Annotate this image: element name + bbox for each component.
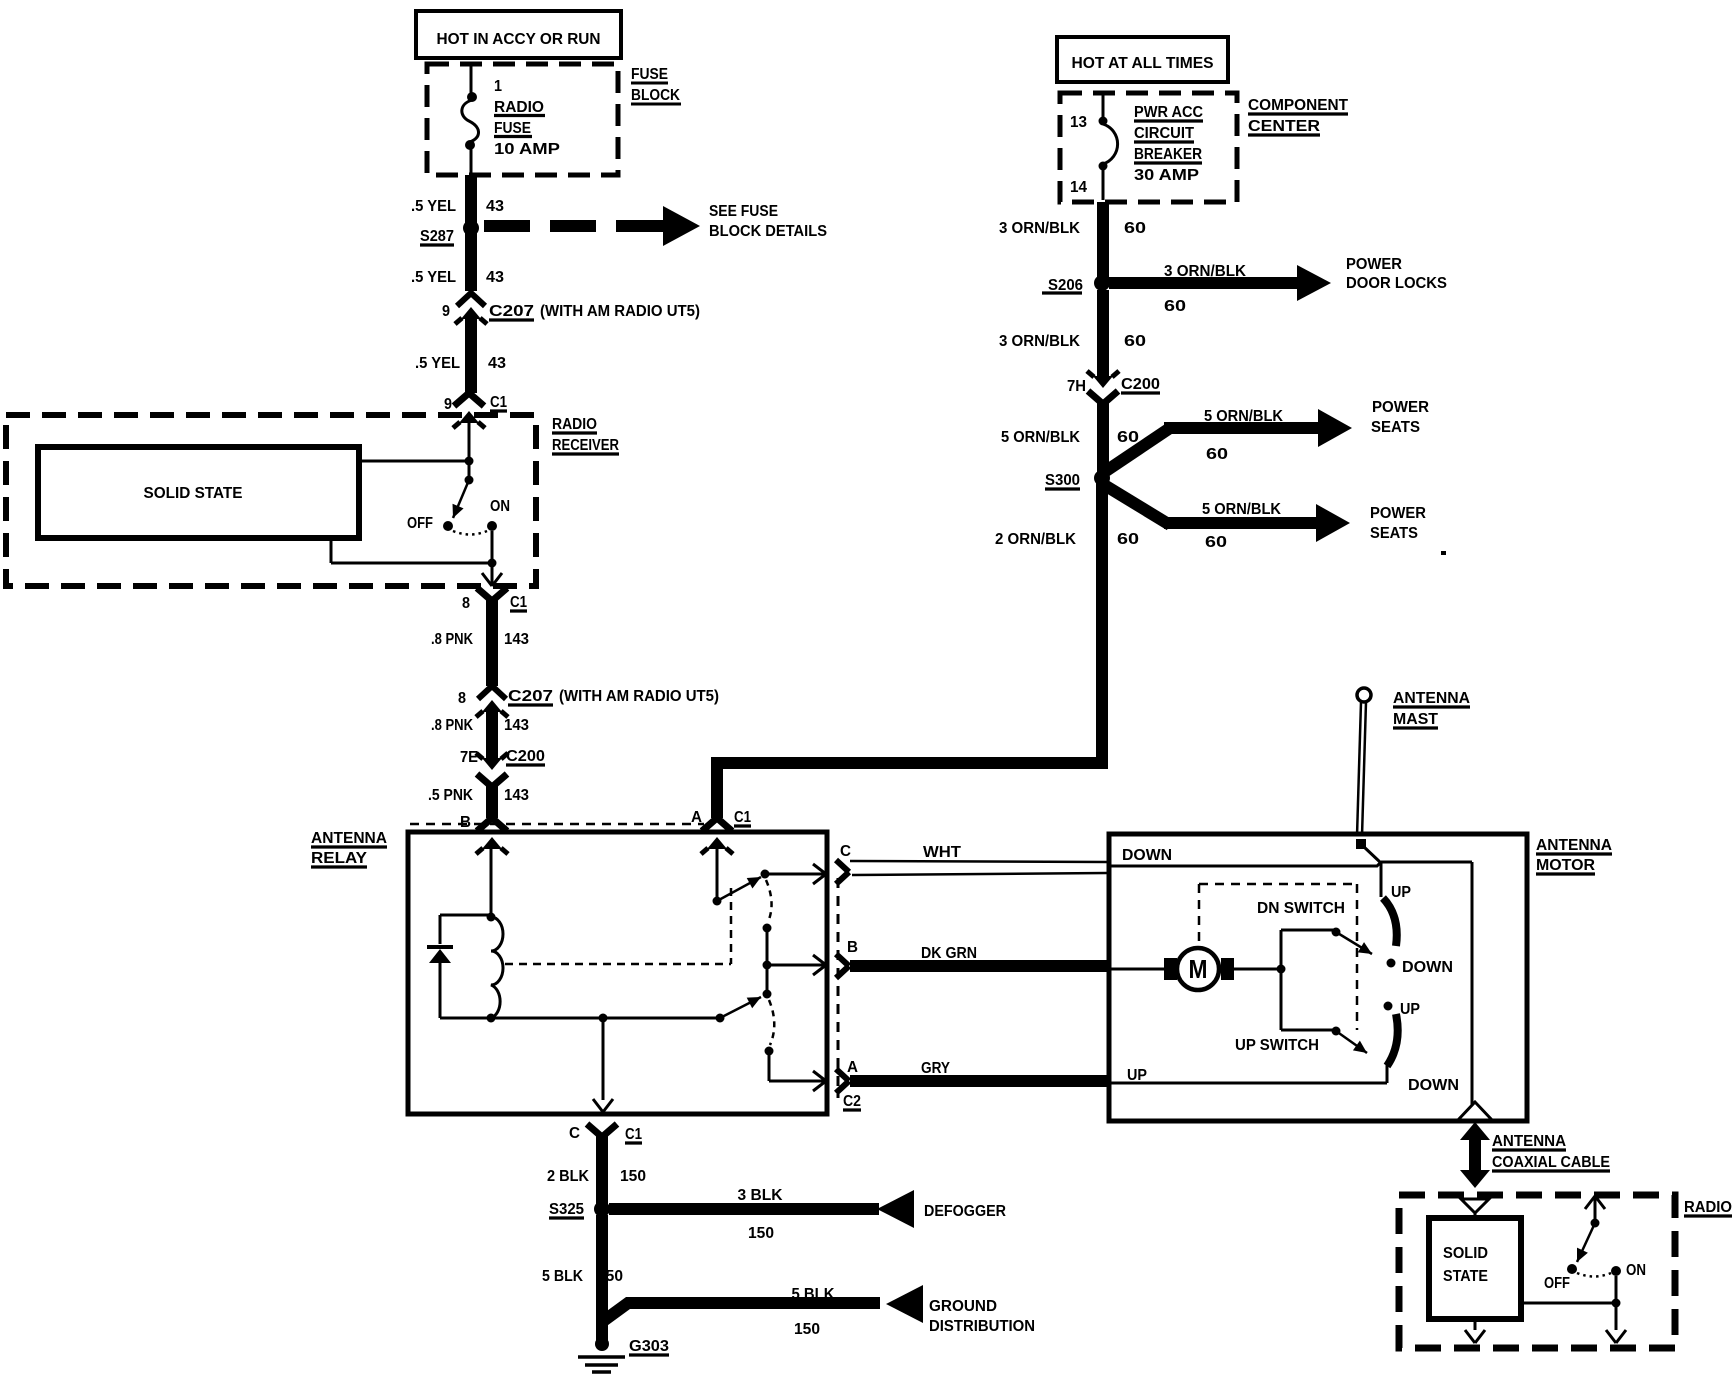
wire: solid state bottom exit [1465, 1319, 1485, 1343]
pin 9 at C1 [444, 396, 452, 413]
wire: receiver to C207 (.8 PNK 143) [486, 599, 498, 686]
DN switch dashed linkage box [1199, 884, 1357, 1030]
solid state module box (radio) [1429, 1213, 1521, 1319]
solid state module box (receiver) [38, 447, 359, 538]
contact: DN switch DOWN [1387, 959, 1396, 968]
label ON (receiver) [490, 498, 510, 515]
svg-text:S300: S300 [1045, 472, 1080, 489]
label C207 (WITH AM RADIO UT5) [489, 303, 700, 320]
label OFF (radio) [1544, 1275, 1570, 1292]
wire: mast to node [1363, 846, 1381, 863]
wire label 5 ORN/BLK 60 (lower branch) [1202, 501, 1281, 551]
connector C1 pin A into relay [701, 818, 733, 854]
contact: column mid [763, 961, 772, 970]
connector C2 dashed line [837, 878, 840, 1098]
mast terminal square [1356, 839, 1366, 849]
wire label 3 ORN/BLK 60 (branch) [1164, 263, 1246, 315]
svg-text:HOT IN ACCY OR RUN: HOT IN ACCY OR RUN [437, 31, 601, 48]
label C2 [843, 1093, 861, 1110]
wire: C200 to S300 (5 ORN/BLK 60) [1097, 402, 1109, 478]
svg-text:COMPONENT: COMPONENT [1248, 97, 1348, 114]
wire label .8 PNK 143 [431, 631, 529, 648]
pin B at relay C1 [460, 814, 471, 831]
svg-text:143: 143 [504, 787, 529, 804]
splice S300 [1094, 470, 1110, 486]
ground G303 [578, 1337, 625, 1372]
svg-text:ANTENNA: ANTENNA [1492, 1133, 1566, 1150]
svg-text:OFF: OFF [407, 515, 433, 532]
connector C1 pin 9 into radio receiver [453, 393, 485, 428]
svg-text:150: 150 [748, 1225, 774, 1242]
connector C1 pin 8 out of radio receiver [477, 588, 507, 601]
wire label 3 ORN/BLK 60 (2) [999, 333, 1146, 350]
svg-text:FUSE: FUSE [631, 66, 668, 83]
svg-text:BLOCK: BLOCK [631, 87, 680, 104]
svg-text:POWER: POWER [1346, 256, 1402, 273]
svg-text:2 ORN/BLK: 2 ORN/BLK [995, 531, 1076, 548]
wire label DK GRN [921, 945, 977, 962]
splice S287 [463, 220, 479, 236]
svg-text:13: 13 [1070, 114, 1087, 131]
pin C at relay right [840, 843, 851, 860]
svg-text:RELAY: RELAY [311, 850, 367, 867]
svg-text:5 ORN/BLK: 5 ORN/BLK [1204, 408, 1283, 425]
power source label: HOT AT ALL TIMES [1057, 37, 1228, 82]
wire label 5 ORN/BLK 60 (3) [1001, 429, 1139, 446]
svg-text:ANTENNA: ANTENNA [1393, 690, 1470, 707]
wire label .5 YEL 43 [411, 198, 504, 215]
wire label .5 PNK 143 [428, 787, 529, 804]
wire: junction to UP pivot [1281, 1029, 1336, 1032]
wire label 2 BLK 150 [547, 1168, 646, 1185]
label DN SWITCH [1257, 900, 1345, 917]
svg-text:DN SWITCH: DN SWITCH [1257, 900, 1345, 917]
label UP SWITCH [1235, 1037, 1319, 1054]
pin B at C2 [847, 939, 858, 956]
svg-text:SEATS: SEATS [1370, 525, 1418, 542]
node: motor junction [1277, 965, 1286, 974]
svg-text:S325: S325 [549, 1201, 584, 1218]
connector C2 pin C [836, 860, 849, 884]
pin 7E at C200 [460, 749, 478, 766]
svg-text:5 BLK: 5 BLK [792, 1286, 835, 1303]
node: coil top junction [487, 913, 496, 922]
antenna motor label: ANTENNA MOTOR [1536, 837, 1612, 874]
pin A at C2 [847, 1059, 858, 1076]
svg-text:43: 43 [488, 355, 506, 372]
destination label: POWER DOOR LOCKS [1346, 256, 1447, 292]
node: coil bottom junction [440, 1014, 496, 1023]
contact: column top [763, 924, 772, 933]
wire: relay C to S325 (2 BLK 150) [596, 1135, 608, 1209]
svg-text:60: 60 [1206, 446, 1228, 463]
destination label: POWER SEATS (upper) [1371, 399, 1429, 436]
svg-text:60: 60 [1124, 220, 1146, 237]
connector C207 (upper) [455, 293, 487, 324]
svg-text:3 ORN/BLK: 3 ORN/BLK [999, 220, 1080, 237]
wire: upper contact to C output [765, 864, 826, 884]
radio switch arm [1577, 1223, 1595, 1262]
svg-text:143: 143 [504, 717, 529, 734]
wire DK GRN to motor [850, 960, 1108, 972]
contact column wire [766, 928, 769, 994]
relay lower switch arm [720, 997, 761, 1018]
antenna coaxial cable double arrow [1460, 1122, 1490, 1188]
label C207 (WITH AM RADIO UT5) lower [508, 688, 719, 705]
contact OFF (receiver) [443, 521, 453, 531]
svg-text:.5 PNK: .5 PNK [428, 787, 473, 804]
connector C1 pin B into relay [476, 818, 508, 854]
stray mark [1441, 551, 1446, 555]
svg-text:3 ORN/BLK: 3 ORN/BLK [1164, 263, 1246, 280]
wire: junction to switch pivot [468, 461, 471, 478]
svg-text:B: B [847, 939, 858, 956]
svg-text:RADIO: RADIO [494, 99, 544, 116]
wire: node to coax edge [1381, 862, 1472, 1116]
wire: S300 down and across to relay A (2 ORN/BLK 60) [717, 483, 1102, 818]
breaker value label: PWR ACC CIRCUIT BREAKER 30 AMP [1134, 104, 1203, 184]
label S287 [420, 228, 454, 245]
svg-text:C1: C1 [734, 809, 751, 826]
wire label GRY [921, 1060, 950, 1077]
svg-text:C207: C207 [508, 688, 553, 705]
svg-text:ON: ON [490, 498, 510, 515]
svg-text:MOTOR: MOTOR [1536, 857, 1595, 874]
label C200 (right) [1121, 376, 1160, 393]
wire label .8 PNK 143 (2) [431, 717, 529, 734]
svg-text:C2: C2 [843, 1093, 861, 1110]
svg-text:DOOR LOCKS: DOOR LOCKS [1346, 275, 1447, 292]
svg-text:COAXIAL CABLE: COAXIAL CABLE [1492, 1154, 1610, 1171]
wire GRY to motor [850, 1075, 1108, 1087]
wire: S206 to C200 (3 ORN/BLK 60) [1097, 290, 1109, 377]
fuse block label: FUSE BLOCK [631, 66, 681, 104]
svg-text:143: 143 [504, 631, 529, 648]
svg-text:GRY: GRY [921, 1060, 950, 1077]
arrow wire to power seats (upper) [1106, 409, 1352, 471]
svg-text:1: 1 [494, 78, 502, 95]
svg-text:C: C [569, 1125, 580, 1142]
coax label: ANTENNA COAXIAL CABLE [1492, 1133, 1610, 1171]
contact: lower A output [765, 1047, 774, 1056]
node: receiver feed junction [359, 457, 474, 466]
label DOWN (UP switch) [1408, 1077, 1459, 1094]
svg-text:UP: UP [1391, 884, 1411, 901]
svg-text:5 ORN/BLK: 5 ORN/BLK [1001, 429, 1080, 446]
wire: C207 to radio receiver C1 (.5 YEL 43) [465, 318, 477, 393]
svg-text:2 BLK: 2 BLK [547, 1168, 589, 1185]
node: lower switch pivot [716, 1014, 725, 1023]
diode CR1 (relay) [427, 947, 453, 1018]
DN switch arm [1336, 932, 1372, 954]
arrow wire to power door locks [1109, 265, 1331, 301]
svg-text:3 BLK: 3 BLK [738, 1187, 783, 1204]
label C1 (receiver in) [490, 394, 507, 411]
svg-text:.5 YEL: .5 YEL [411, 269, 456, 286]
svg-text:(WITH AM RADIO UT5): (WITH AM RADIO UT5) [559, 688, 719, 705]
arrow wire to ground distribution (5 BLK 150) [602, 1285, 923, 1323]
svg-text:RADIO: RADIO [552, 416, 597, 433]
wire: S287 to C207 (.5 YEL 43) [465, 228, 477, 291]
wire: ON contact down to bus [491, 531, 494, 563]
svg-text:.8 PNK: .8 PNK [431, 631, 473, 648]
wire: junction risers [1280, 930, 1283, 1030]
radio label: RADIO [1684, 1199, 1732, 1216]
coax connector triangle (radio) [1461, 1199, 1489, 1213]
svg-text:S287: S287 [420, 228, 454, 245]
svg-text:B: B [460, 814, 471, 831]
component center label: COMPONENT CENTER [1248, 97, 1348, 135]
connector C1 pin C below relay [587, 1124, 617, 1137]
antenna relay box [408, 832, 827, 1114]
svg-text:.5 YEL: .5 YEL [411, 198, 456, 215]
svg-text:BLOCK DETAILS: BLOCK DETAILS [709, 223, 827, 240]
svg-text:UP: UP [1127, 1067, 1147, 1084]
contact: UP switch UP [1384, 1002, 1393, 1011]
svg-text:SEE FUSE: SEE FUSE [709, 203, 778, 220]
svg-text:8: 8 [458, 690, 466, 707]
pin C at relay bottom [569, 1125, 580, 1142]
wire label 5 BLK 150 [542, 1268, 623, 1285]
svg-text:DOWN: DOWN [1122, 847, 1172, 864]
motor M (antenna drive) [1177, 948, 1219, 990]
wire: C junction to lower pivot [603, 1017, 720, 1020]
arrow wire to defogger (3 BLK 150) [609, 1190, 914, 1228]
wire: junction to diode [440, 915, 491, 944]
svg-text:C207: C207 [489, 303, 534, 320]
svg-text:C1: C1 [490, 394, 507, 411]
label G303 [629, 1338, 669, 1355]
antenna relay label: ANTENNA RELAY [311, 830, 387, 867]
svg-text:30 AMP: 30 AMP [1134, 167, 1199, 184]
relay coil K1 [491, 917, 503, 1018]
svg-text:5 BLK: 5 BLK [542, 1268, 583, 1285]
svg-text:150: 150 [794, 1321, 820, 1338]
label C1 (relay A) [734, 809, 751, 826]
pin 7H at C200 [1067, 378, 1086, 395]
label DOWN (DN switch) [1402, 959, 1453, 976]
label ON (radio) [1626, 1262, 1646, 1279]
svg-text:POWER: POWER [1370, 505, 1426, 522]
connector C2 pin A [836, 1069, 849, 1093]
relay linkage dashed [505, 888, 731, 964]
fuse pin label 1 [494, 78, 502, 95]
fuse F1: RADIO FUSE 10 AMP [462, 64, 479, 177]
node: radio switch pivot [1591, 1219, 1600, 1228]
svg-text:ANTENNA: ANTENNA [1536, 837, 1612, 854]
svg-text:60: 60 [1117, 429, 1139, 446]
fuse value label: RADIO FUSE 10 AMP [494, 99, 560, 158]
arrow wire to power seats (lower) [1106, 486, 1350, 542]
svg-text:RADIO: RADIO [1684, 1199, 1732, 1216]
wire: ON to radio bus [1615, 1276, 1618, 1303]
label DOWN (motor feed) [1122, 847, 1172, 864]
motor terminal left [1164, 958, 1177, 980]
destination label: POWER SEATS (lower) [1370, 505, 1426, 542]
wire label .5 YEL 43 (3) [415, 355, 506, 372]
node: receiver switch pivot [465, 476, 474, 485]
wire: DOWN feed inside motor [1108, 862, 1381, 866]
wire: coil bottom to C exit junction [491, 1017, 603, 1020]
contact: lower NO [763, 990, 772, 999]
svg-text:SEATS: SEATS [1371, 419, 1420, 436]
wire: relay A entry to upper pivot [716, 848, 719, 901]
svg-text:9: 9 [442, 303, 450, 320]
node: UP switch pivot [1332, 1027, 1341, 1036]
svg-text:14: 14 [1070, 179, 1087, 196]
node: radio bus junction [1612, 1299, 1621, 1308]
UP switch travel arc (DOWN contact) [1387, 1014, 1398, 1066]
wire: solid state to output junction [331, 538, 492, 563]
coax connector triangle (motor) [1458, 1102, 1492, 1120]
antenna mast [1357, 688, 1371, 836]
contact ON (receiver) [487, 521, 497, 531]
relay travel dashed arc (lower) [769, 1000, 774, 1045]
dashed connector line C1 across relay top [410, 823, 704, 826]
svg-text:8: 8 [462, 595, 470, 612]
contact ON (radio) [1611, 1266, 1621, 1276]
label C1 (relay bottom) [625, 1126, 642, 1143]
svg-text:UP SWITCH: UP SWITCH [1235, 1037, 1319, 1054]
svg-text:C: C [840, 843, 851, 860]
radio receiver label: RADIO RECEIVER [552, 416, 619, 454]
svg-text:7H: 7H [1067, 378, 1086, 395]
connector C200 pin 7H [1087, 371, 1119, 404]
radio switch travel dotted arc [1577, 1273, 1611, 1277]
relay travel dashed arc (upper) [766, 880, 772, 922]
wire: solid state to bus [1521, 1302, 1616, 1305]
destination label: SEE FUSE BLOCK DETAILS [709, 203, 827, 240]
pin 8 at C1 out [462, 595, 470, 612]
wire: DK GRN entry to motor [1108, 968, 1164, 971]
antenna mast label: ANTENNA MAST [1393, 690, 1470, 728]
svg-text:GROUND: GROUND [929, 1298, 997, 1315]
svg-text:60: 60 [1124, 333, 1146, 350]
wire: motor to junction [1234, 968, 1281, 971]
power source label: HOT IN ACCY OR RUN [416, 11, 621, 58]
fuse block dashed box [427, 64, 618, 175]
wire label 5 BLK 150 (2) [792, 1286, 835, 1338]
svg-text:RECEIVER: RECEIVER [552, 437, 619, 454]
wire WHT (hollow white wire) [850, 861, 1107, 875]
svg-text:CENTER: CENTER [1248, 118, 1320, 135]
contact OFF (radio) [1567, 1264, 1577, 1274]
pin 14 at breaker [1070, 179, 1087, 196]
connector C200 pin 7E [476, 753, 508, 787]
component center dashed box [1060, 93, 1237, 202]
svg-text:150: 150 [597, 1268, 623, 1285]
label S206 [1042, 277, 1083, 294]
wire: C junction to C1 exit [593, 1018, 613, 1112]
svg-text:SOLID STATE: SOLID STATE [144, 485, 243, 502]
svg-text:5 ORN/BLK: 5 ORN/BLK [1202, 501, 1281, 518]
contact: upper NO [761, 870, 770, 879]
label S300 [1045, 472, 1080, 489]
svg-text:ANTENNA: ANTENNA [311, 830, 387, 847]
wire: receiver C1 to switch node [468, 422, 471, 461]
wire: node down to DN contact [1380, 862, 1383, 897]
wire: breaker to S206 (3 ORN/BLK 60) [1097, 202, 1109, 283]
pin 8 at C207 [458, 690, 466, 707]
pin 9 at C207 [442, 303, 450, 320]
svg-text:10 AMP: 10 AMP [494, 141, 560, 158]
wire label 3 BLK 150 [738, 1187, 783, 1242]
dashed arrow to fuse block details [484, 206, 700, 246]
label C200 (left) [506, 748, 545, 765]
wire: fuse to S287 (.5 YEL 43) [465, 175, 477, 228]
svg-text:STATE: STATE [1443, 1268, 1488, 1285]
splice S206 [1094, 275, 1110, 291]
svg-text:3 ORN/BLK: 3 ORN/BLK [999, 333, 1080, 350]
svg-text:OFF: OFF [1544, 1275, 1570, 1292]
wire label WHT [923, 844, 961, 861]
svg-text:UP: UP [1400, 1001, 1420, 1018]
svg-text:.8 PNK: .8 PNK [431, 717, 473, 734]
svg-text:9: 9 [444, 396, 452, 413]
label UP (motor feed) [1127, 1067, 1147, 1084]
wire: S325 to ground (5 BLK 150) [596, 1215, 608, 1341]
svg-text:CIRCUIT: CIRCUIT [1134, 125, 1194, 142]
DN switch travel arc (UP contact) [1383, 898, 1397, 946]
wire: bus to radio exit [1606, 1303, 1626, 1343]
svg-text:43: 43 [486, 198, 504, 215]
svg-text:7E: 7E [460, 749, 478, 766]
node: DN switch pivot [1281, 928, 1341, 937]
wire: relay B entry to coil [490, 848, 493, 917]
wire: C207 to C200 (.8 PNK 143) [486, 711, 498, 759]
wire: A contact to A output [769, 1051, 826, 1091]
wire label 3 ORN/BLK 60 [999, 220, 1146, 237]
svg-text:POWER: POWER [1372, 399, 1429, 416]
wire label .5 YEL 43 (2) [411, 269, 504, 286]
antenna motor box [1109, 834, 1527, 1121]
svg-text:DEFOGGER: DEFOGGER [924, 1203, 1006, 1220]
destination label: DEFOGGER [924, 1203, 1006, 1220]
connector C2 pin B [836, 954, 849, 978]
switch travel dashed arc (receiver) [453, 531, 487, 535]
svg-text:60: 60 [1164, 298, 1186, 315]
radio dashed box [1399, 1195, 1675, 1348]
splice S325 [594, 1201, 610, 1217]
label OFF (receiver) [407, 515, 433, 532]
svg-text:WHT: WHT [923, 844, 961, 861]
svg-text:60: 60 [1117, 531, 1139, 548]
svg-text:G303: G303 [629, 1338, 669, 1355]
UP switch arm [1336, 1031, 1367, 1053]
node: upper switch pivot [713, 897, 722, 906]
svg-text:DOWN: DOWN [1408, 1077, 1459, 1094]
radio switch feed arrow [1585, 1196, 1605, 1221]
svg-text:DOWN: DOWN [1402, 959, 1453, 976]
switch arm (receiver on/off) [453, 480, 469, 518]
radio receiver dashed box [6, 415, 536, 586]
destination label: GROUND DISTRIBUTION [929, 1298, 1035, 1335]
node: receiver output junction [488, 559, 497, 568]
connector C207 (lower) [476, 686, 508, 717]
svg-text:C1: C1 [625, 1126, 642, 1143]
node: relay C junction [599, 1014, 608, 1023]
label UP (DN switch) [1391, 884, 1411, 901]
svg-text:C1: C1 [510, 594, 527, 611]
wire: GRY/UP inside motor [1108, 1064, 1387, 1083]
relay upper switch arm [717, 877, 761, 901]
svg-text:DISTRIBUTION: DISTRIBUTION [929, 1318, 1035, 1335]
svg-text:BREAKER: BREAKER [1134, 146, 1202, 163]
wire: junction to C1 exit [482, 563, 502, 586]
svg-text:(WITH AM RADIO UT5): (WITH AM RADIO UT5) [540, 303, 700, 320]
svg-text:150: 150 [620, 1168, 646, 1185]
svg-text:C200: C200 [1121, 376, 1160, 393]
